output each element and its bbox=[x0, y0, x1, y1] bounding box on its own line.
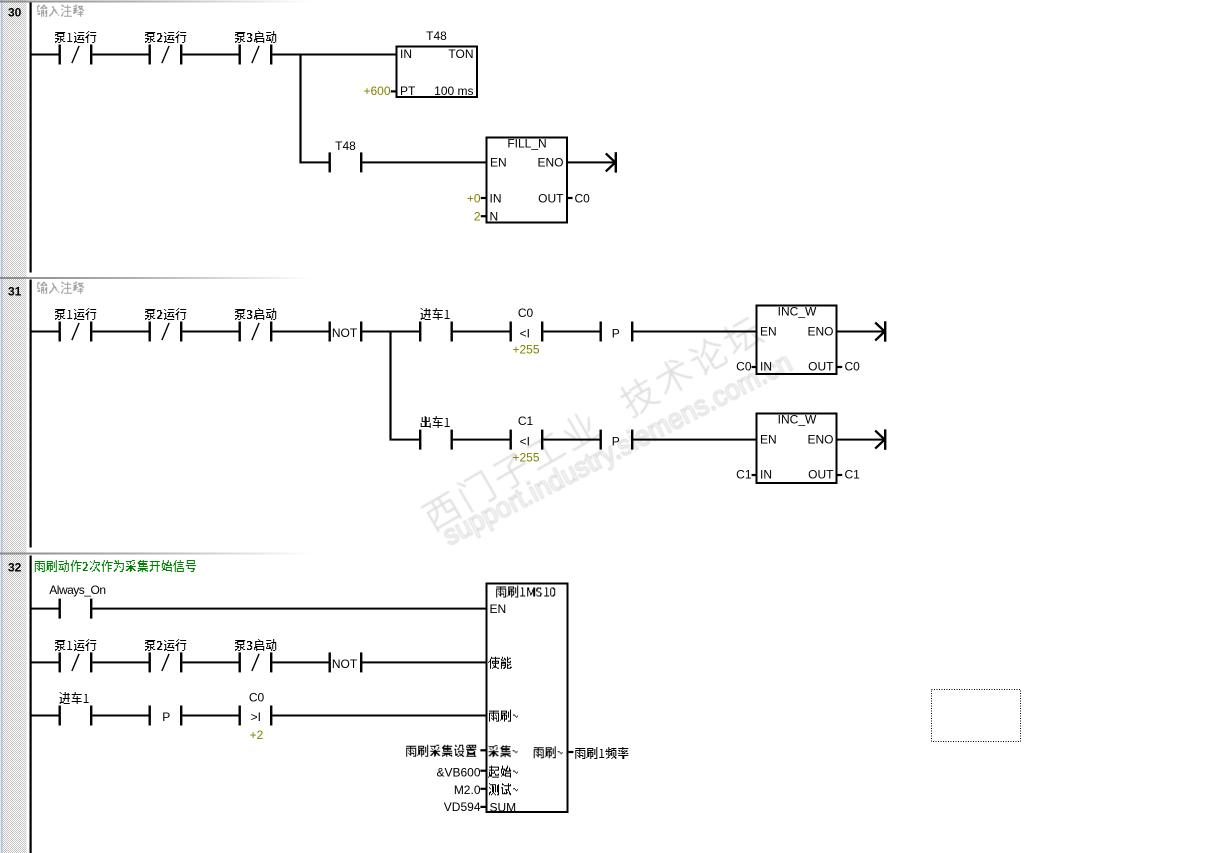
timer box T48 TON bbox=[397, 47, 478, 98]
svg-text:<I: <I bbox=[520, 327, 530, 341]
svg-text:P: P bbox=[612, 435, 620, 449]
svg-text:IN: IN bbox=[490, 192, 502, 206]
watermark: 西门子工业 技术论坛 (rotated outline text) bbox=[420, 314, 764, 533]
svg-text:OUT: OUT bbox=[808, 360, 834, 374]
svg-text:32: 32 bbox=[8, 561, 22, 575]
tick OUT bbox=[837, 366, 842, 368]
wire rail to contact 泵1运行 bbox=[32, 54, 59, 56]
svg-text:PT: PT bbox=[400, 84, 416, 98]
wire bbox=[453, 331, 510, 333]
wire bbox=[92, 331, 148, 333]
svg-text:SUM: SUM bbox=[490, 801, 517, 815]
contact 泵1运行 (NC) bbox=[59, 322, 93, 342]
tick output bbox=[569, 751, 574, 753]
svg-text:ENO: ENO bbox=[807, 325, 833, 339]
operand 雨刷1频率 bbox=[575, 747, 628, 759]
svg-text:EN: EN bbox=[760, 433, 777, 447]
wire rail to contact 进车1 bbox=[32, 715, 59, 717]
contact 进车1 (NO) bbox=[419, 322, 453, 342]
wire bbox=[182, 661, 238, 663]
svg-text:VD594: VD594 bbox=[444, 800, 481, 814]
wire bbox=[362, 331, 419, 333]
pin 测试~ bbox=[489, 783, 518, 795]
box INC_W (second) bbox=[757, 414, 837, 484]
tick IN bbox=[752, 474, 757, 476]
svg-text:INC_W: INC_W bbox=[778, 305, 817, 319]
wire branch to contact 出车1 bbox=[392, 439, 419, 441]
junction branch down bbox=[299, 54, 301, 164]
wire rail to contact bbox=[32, 331, 59, 333]
label 出车1 bbox=[421, 416, 450, 428]
tick SUM bbox=[480, 806, 485, 808]
contact T48 (NO) bbox=[329, 152, 363, 172]
svg-text:IN: IN bbox=[760, 468, 772, 482]
svg-text:ENO: ENO bbox=[537, 156, 563, 170]
svg-text:EN: EN bbox=[490, 156, 507, 170]
wire bbox=[543, 439, 599, 441]
svg-text:C0: C0 bbox=[845, 360, 861, 374]
wire ENO out bbox=[567, 161, 615, 163]
tick IN bbox=[481, 197, 486, 199]
svg-text:+600: +600 bbox=[363, 84, 390, 98]
open branch arrow bbox=[875, 429, 886, 449]
svg-text:IN: IN bbox=[400, 47, 412, 61]
contact 出车1 (NO) bbox=[419, 430, 453, 450]
label 进车1 bbox=[421, 308, 450, 320]
box INC_W (first) bbox=[757, 306, 837, 375]
svg-text:M2.0: M2.0 bbox=[454, 783, 481, 797]
wire ENO out bbox=[837, 439, 885, 441]
svg-text:NOT: NOT bbox=[332, 326, 358, 340]
comparator contact C0 &gt;I bbox=[239, 706, 273, 726]
svg-text:T48: T48 bbox=[426, 29, 447, 43]
label 进车1 bbox=[60, 692, 89, 704]
tick 采集 bbox=[480, 749, 485, 751]
network number gutter (hatched) bbox=[3, 0, 27, 853]
svg-text:OUT: OUT bbox=[808, 468, 834, 482]
svg-text:+2: +2 bbox=[250, 728, 264, 742]
svg-text:<I: <I bbox=[520, 435, 530, 449]
wire to INC_W bbox=[633, 439, 757, 441]
network 32 top border bbox=[0, 553, 310, 555]
tick IN bbox=[752, 366, 757, 368]
network 30 top border bbox=[0, 1, 310, 3]
svg-text:N: N bbox=[490, 210, 499, 224]
wire to box 使能 bbox=[362, 661, 486, 663]
svg-text:2: 2 bbox=[474, 210, 481, 224]
title 雨刷1MS10 bbox=[496, 586, 555, 598]
wire bbox=[92, 715, 148, 717]
contact P (positive edge) bbox=[149, 706, 183, 726]
dashed selection rectangle bbox=[932, 690, 1021, 742]
label 泵3启动 bbox=[235, 639, 276, 651]
svg-text:C0: C0 bbox=[518, 306, 534, 320]
tick 起始 bbox=[480, 770, 485, 772]
svg-text:C1: C1 bbox=[736, 468, 752, 482]
left power rail network 30 bbox=[30, 3, 32, 273]
wire to FILL_N box bbox=[362, 161, 487, 163]
contact 进车1 (NO) bbox=[59, 706, 93, 726]
contact 泵2运行 (NC) bbox=[149, 45, 183, 65]
wire bbox=[453, 439, 510, 441]
left power rail network 31 bbox=[30, 280, 32, 548]
network 32 comment 雨刷动作2次作为采集开始信号 bbox=[35, 560, 196, 572]
svg-text:INC_W: INC_W bbox=[778, 413, 817, 427]
svg-text:+255: +255 bbox=[512, 343, 539, 357]
box FILL_N bbox=[487, 138, 568, 223]
wire bbox=[92, 54, 148, 56]
svg-text:TON: TON bbox=[448, 47, 473, 61]
contact NOT bbox=[329, 652, 363, 672]
comparator contact C1 &lt;I bbox=[510, 430, 544, 450]
svg-text:C0: C0 bbox=[249, 691, 265, 705]
tick OUT bbox=[837, 474, 842, 476]
left window edge strip bbox=[0, 0, 1, 853]
wire rail to contact Always_On bbox=[32, 608, 59, 610]
wire bbox=[182, 331, 238, 333]
svg-text:31: 31 bbox=[8, 285, 22, 299]
svg-text:FILL_N: FILL_N bbox=[507, 137, 546, 151]
contact 泵3启动 (NC) bbox=[239, 652, 273, 672]
svg-text:IN: IN bbox=[760, 360, 772, 374]
svg-text:OUT: OUT bbox=[538, 192, 564, 206]
network 31 top border bbox=[0, 277, 310, 279]
left power rail network 32 bbox=[30, 556, 32, 853]
label 泵2运行 bbox=[145, 31, 186, 43]
comparator contact C0 &lt;I bbox=[510, 322, 544, 342]
label 泵3启动 bbox=[235, 31, 276, 43]
contact 泵2运行 (NC) bbox=[149, 652, 183, 672]
svg-text:C0: C0 bbox=[575, 192, 591, 206]
open branch arrow bbox=[606, 152, 617, 172]
svg-text:30: 30 bbox=[8, 6, 22, 20]
wire bbox=[182, 715, 238, 717]
subroutine box 雨刷1MS10 bbox=[487, 584, 568, 813]
contact 泵3启动 (NC) bbox=[239, 322, 273, 342]
svg-text:ENO: ENO bbox=[807, 433, 833, 447]
label 泵2运行 bbox=[145, 639, 186, 651]
network 31 comment 输入注释 bbox=[37, 282, 84, 294]
network 30 comment 输入注释 bbox=[37, 5, 84, 17]
svg-text:EN: EN bbox=[760, 325, 777, 339]
tick PT bbox=[391, 90, 396, 92]
tick OUT bbox=[568, 197, 573, 199]
svg-text:T48: T48 bbox=[335, 139, 356, 153]
contact NOT bbox=[329, 322, 363, 342]
contact P (positive edge) bbox=[600, 322, 634, 342]
svg-text:P: P bbox=[612, 327, 620, 341]
wire to box EN bbox=[92, 608, 485, 610]
svg-text:Always_On: Always_On bbox=[49, 583, 105, 597]
label 泵1运行 bbox=[55, 308, 96, 320]
contact 泵3启动 (NC) bbox=[239, 45, 273, 65]
output local 雨刷~ bbox=[534, 746, 563, 758]
wire to box 雨刷~ bbox=[272, 715, 485, 717]
label 泵3启动 bbox=[235, 308, 276, 320]
contact P (positive edge) bbox=[600, 430, 634, 450]
wire bbox=[92, 661, 148, 663]
svg-text:C1: C1 bbox=[845, 468, 861, 482]
svg-text:>I: >I bbox=[251, 710, 261, 724]
contact Always_On (NO) bbox=[59, 599, 93, 619]
svg-text:C0: C0 bbox=[736, 360, 752, 374]
svg-text:C1: C1 bbox=[518, 414, 534, 428]
wire branch to contact T48 bbox=[301, 161, 329, 163]
svg-text:+255: +255 bbox=[512, 451, 539, 465]
contact 泵2运行 (NC) bbox=[149, 322, 183, 342]
svg-text:+0: +0 bbox=[467, 192, 481, 206]
wire rail to contact bbox=[32, 661, 59, 663]
pin 起始~ bbox=[488, 766, 518, 778]
contact 泵1运行 (NC) bbox=[59, 652, 93, 672]
svg-text:NOT: NOT bbox=[332, 657, 358, 671]
tick N bbox=[481, 215, 486, 217]
pin 雨刷~ bbox=[489, 710, 518, 722]
wire ENO out bbox=[837, 331, 885, 333]
svg-text:&VB600: &VB600 bbox=[436, 766, 480, 780]
tick 测试 bbox=[480, 788, 485, 790]
svg-text:P: P bbox=[162, 710, 170, 724]
svg-text:100 ms: 100 ms bbox=[434, 84, 473, 98]
label 泵2运行 bbox=[145, 308, 186, 320]
svg-text:EN: EN bbox=[490, 602, 507, 616]
wire to INC_W bbox=[633, 331, 757, 333]
label 泵1运行 bbox=[55, 639, 96, 651]
open branch arrow bbox=[875, 321, 886, 341]
contact 泵1运行 (NC) bbox=[59, 45, 93, 65]
pin 采集~ bbox=[489, 745, 518, 757]
wire bbox=[272, 331, 328, 333]
operand 雨刷采集设置 bbox=[406, 745, 476, 757]
label 泵1运行 bbox=[55, 31, 96, 43]
wire bbox=[272, 661, 328, 663]
pin 使能 bbox=[488, 657, 512, 669]
wire to timer box bbox=[272, 54, 396, 56]
junction branch down bbox=[389, 331, 391, 441]
wire bbox=[182, 54, 238, 56]
wire bbox=[543, 331, 599, 333]
